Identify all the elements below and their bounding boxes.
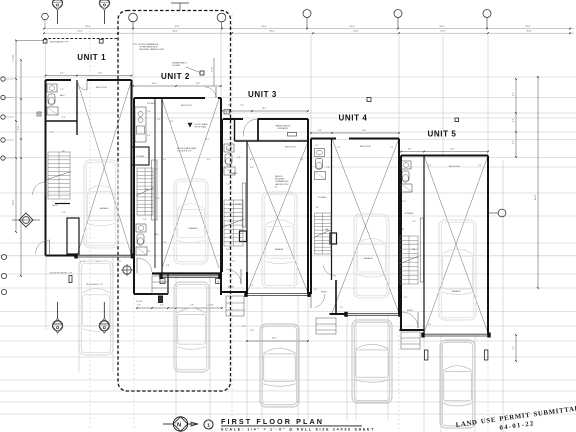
svg-text:11'-2": 11'-2" — [98, 73, 103, 75]
unit 3 stairs — [224, 200, 243, 246]
svg-text:UP 16R: UP 16R — [235, 204, 242, 206]
unit 1 garage door — [77, 254, 132, 256]
property line dashed rounded rectangle — [118, 11, 231, 392]
svg-text:ENTRY: ENTRY — [321, 292, 328, 294]
top dimension line row 2 — [44, 32, 574, 34]
left edge hex bubbles — [1, 77, 5, 81]
svg-text:CONCRETE LANDING, TYP: CONCRETE LANDING, TYP — [49, 272, 73, 275]
svg-text:16'-0": 16'-0" — [353, 31, 359, 33]
svg-text:2'-0": 2'-0" — [300, 159, 304, 161]
svg-text:UNIT 4: UNIT 4 — [339, 114, 368, 123]
svg-text:GARAGE: GARAGE — [364, 257, 374, 260]
unit 3 walls — [223, 118, 243, 120]
svg-text:16'-0": 16'-0" — [440, 31, 446, 33]
unit 1 landing post — [69, 276, 72, 283]
svg-text:TOP OF SLAB: TOP OF SLAB — [194, 125, 207, 128]
unit 2 landing post — [159, 296, 163, 303]
svg-text:3'-4": 3'-4" — [207, 159, 211, 161]
drawing number circle — [204, 420, 213, 429]
svg-text:4'-2": 4'-2" — [428, 165, 432, 167]
svg-text:ENTRANCE: ENTRANCE — [278, 127, 289, 130]
svg-text:16'-0": 16'-0" — [525, 26, 531, 28]
svg-text:STORAGE: STORAGE — [405, 212, 415, 215]
driveway car unit 2 — [174, 282, 209, 372]
svg-text:1: 1 — [207, 423, 210, 428]
svg-text:1'-0": 1'-0" — [62, 212, 66, 214]
svg-text:7'-0": 7'-0" — [226, 184, 230, 186]
svg-text:2'-4 1/2": 2'-4 1/2" — [136, 301, 143, 303]
lot post unit5 — [455, 118, 459, 122]
svg-text:16'-0": 16'-0" — [172, 31, 178, 33]
svg-text:16'-0": 16'-0" — [439, 26, 445, 28]
column post unit2 — [200, 71, 204, 75]
svg-text:4'-0": 4'-0" — [513, 118, 515, 122]
svg-text:GARAGE: GARAGE — [100, 207, 110, 210]
svg-text:7'-4 3/4": 7'-4 3/4" — [13, 54, 15, 62]
unit 4 top dim row — [311, 132, 399, 134]
svg-text:6'-4": 6'-4" — [60, 73, 64, 75]
svg-text:UNIT 5: UNIT 5 — [428, 130, 457, 139]
svg-text:3'-0": 3'-0" — [62, 117, 66, 119]
driveway car unit 3 — [260, 324, 299, 407]
unit 3 water service room — [257, 119, 259, 141]
svg-text:30'-6": 30'-6" — [13, 199, 15, 205]
construction grid horizontal lines — [0, 76, 576, 78]
svg-text:BDR ROOM: BDR ROOM — [181, 105, 192, 107]
unit 3 upper dims — [222, 110, 308, 112]
svg-text:2'-6": 2'-6" — [315, 145, 319, 147]
svg-text:4'-2": 4'-2" — [250, 159, 254, 161]
svg-text:14R UP: 14R UP — [52, 205, 59, 207]
unit 1 top dim row — [46, 75, 132, 77]
survey tree 4 bottom — [99, 321, 109, 331]
svg-text:SCALE: 1/4" = 1'-0" @ FULL SIZ: SCALE: 1/4" = 1'-0" @ FULL SIZE 24X36 SH… — [221, 428, 375, 432]
svg-text:16'-0": 16'-0" — [535, 194, 537, 200]
svg-text:1'-6": 1'-6" — [242, 326, 246, 328]
unit 5 hex bubble — [498, 209, 506, 217]
unit 1 door arc top — [77, 80, 87, 90]
svg-text:3'-0": 3'-0" — [226, 249, 230, 251]
unit 2 entry door arc — [137, 258, 152, 272]
unit 3 counter strip — [242, 183, 245, 227]
survey tree 3 bottom — [52, 321, 62, 331]
svg-text:2'-2": 2'-2" — [228, 105, 232, 107]
unit 5 entry door arc — [402, 312, 418, 328]
svg-text:4'-6": 4'-6" — [190, 305, 194, 307]
svg-text:ENTRY: ENTRY — [407, 310, 414, 312]
svg-text:13'-0": 13'-0" — [272, 338, 277, 340]
unit 3 entry door arc — [226, 269, 241, 284]
svg-text:4'-6": 4'-6" — [160, 305, 164, 307]
unit 3 garage door — [247, 293, 308, 295]
svg-text:2'-2": 2'-2" — [118, 261, 122, 263]
svg-text:4'-2": 4'-2" — [337, 147, 341, 149]
svg-text:FIRST FLOOR PLAN: FIRST FLOOR PLAN — [221, 417, 324, 426]
svg-text:10'-2": 10'-2" — [205, 139, 210, 141]
unit 2 main room X brace — [162, 99, 219, 268]
unit 4 walls — [310, 139, 312, 295]
svg-text:3'-1": 3'-1" — [163, 159, 167, 161]
unit 1 deck outline — [16, 40, 44, 42]
svg-text:1'-8": 1'-8" — [412, 221, 416, 223]
unit 2 entry landing — [152, 276, 168, 294]
grid bubble C — [303, 10, 311, 18]
unit 5 top dim row — [401, 151, 488, 153]
unit 4 stairs — [315, 213, 332, 254]
grid bubble D — [394, 10, 402, 18]
svg-text:2'-6": 2'-6" — [402, 201, 406, 203]
unit 5 landing posts — [425, 350, 428, 360]
svg-text:14'-6": 14'-6" — [151, 83, 156, 85]
unit 3 garage X — [247, 142, 308, 293]
unit 2 storage — [132, 147, 150, 165]
unit 1 bath fixtures — [47, 84, 57, 92]
left dimension line inner — [20, 60, 22, 276]
unit 4 interior wall — [331, 139, 333, 281]
svg-text:6'-1": 6'-1" — [340, 307, 344, 309]
survey tree 2 top — [99, 0, 109, 8]
unit 1 garage car — [84, 160, 118, 248]
top dimension line row 1 — [44, 28, 574, 30]
unit 3 bath fixtures — [224, 144, 234, 152]
grid bubble B — [217, 13, 226, 22]
svg-text:ENTRY: ENTRY — [228, 287, 235, 289]
svg-text:9'-6": 9'-6" — [196, 83, 200, 85]
unit 5 stairs — [400, 236, 418, 284]
svg-text:GARAGE: GARAGE — [275, 248, 285, 251]
svg-text:4'-0": 4'-0" — [513, 92, 515, 96]
svg-text:G: G — [162, 282, 164, 284]
svg-text:8'-0": 8'-0" — [318, 130, 322, 132]
driveway car unit 5 — [440, 340, 475, 428]
left survey diamond — [19, 213, 33, 227]
svg-text:1/2" DROPS, TYP: 1/2" DROPS, TYP — [177, 150, 192, 152]
unit 4 bath fixtures — [315, 149, 325, 157]
svg-text:2'-6": 2'-6" — [226, 149, 230, 151]
unit 3 garage car — [262, 192, 297, 288]
svg-text:N: N — [177, 422, 181, 428]
unit 5 interior wall — [423, 156, 425, 334]
unit 5 entry landing — [401, 332, 420, 349]
unit 3 closet slab — [240, 231, 247, 242]
unit 4 landing — [316, 318, 336, 334]
unit 2 garage car — [174, 179, 208, 264]
svg-text:1'-6": 1'-6" — [513, 346, 515, 350]
svg-text:G: G — [217, 282, 219, 284]
unit 3 landing — [226, 296, 244, 316]
svg-text:1'-4": 1'-4" — [147, 135, 151, 137]
grid bubble A — [129, 13, 138, 22]
construction grid vertical lines — [45, 37, 47, 80]
svg-text:DECAL ANGLE, TYP: DECAL ANGLE, TYP — [86, 283, 104, 286]
svg-text:8'-0": 8'-0" — [408, 149, 412, 151]
unit 2 upper dims — [133, 85, 221, 87]
svg-text:7'-10 1/2": 7'-10 1/2" — [206, 305, 214, 307]
land use permit stamp — [455, 405, 576, 432]
svg-text:2'-0": 2'-0" — [478, 165, 482, 167]
svg-text:5'-0": 5'-0" — [147, 251, 151, 253]
unit 1 stairs — [48, 152, 70, 199]
svg-text:3'-0": 3'-0" — [314, 289, 318, 291]
svg-text:COLUMN: COLUMN — [172, 65, 180, 67]
svg-text:WATER SERVICE: WATER SERVICE — [276, 125, 291, 128]
svg-text:16'-0": 16'-0" — [85, 26, 91, 28]
svg-text:24: 24 — [275, 186, 277, 188]
svg-text:GARAGE: GARAGE — [189, 227, 199, 230]
svg-text:BDR ROOM: BDR ROOM — [285, 147, 296, 149]
svg-text:STORAGE: STORAGE — [136, 155, 146, 158]
svg-text:13'-4": 13'-4" — [362, 130, 367, 132]
svg-text:BDR ROOM: BDR ROOM — [96, 87, 107, 89]
unit 1 side door arc — [33, 182, 46, 195]
svg-text:GAR PER TITLE: GAR PER TITLE — [275, 183, 289, 186]
svg-text:KITCHEN: KITCHEN — [147, 103, 155, 105]
svg-text:2'-6": 2'-6" — [147, 111, 151, 113]
right dimension line B — [537, 77, 539, 288]
unit 4 entry door arc — [315, 294, 325, 308]
svg-text:2'-0": 2'-0" — [390, 147, 394, 149]
svg-text:11'-6": 11'-6" — [212, 67, 214, 72]
unit 2 garage front wall — [152, 272, 221, 274]
unit 2 bath fixtures — [136, 224, 146, 232]
unit 1 walls — [45, 80, 47, 256]
unit 2 door arc top exterior — [205, 87, 216, 98]
north arrow — [173, 417, 187, 431]
right dimension lower — [515, 335, 517, 361]
title underline — [221, 425, 362, 427]
unit 4 garage door — [347, 313, 399, 315]
svg-text:7'-2": 7'-2" — [240, 105, 244, 107]
top grid bubble stem at x180 — [179, 3, 181, 11]
svg-text:UNIT 3: UNIT 3 — [248, 90, 277, 99]
svg-text:STORAGE: STORAGE — [318, 196, 328, 199]
svg-text:3'-6": 3'-6" — [156, 198, 160, 200]
unit 3 top door arc — [244, 119, 257, 136]
unit 5 garage car — [439, 220, 476, 320]
svg-text:1'-6": 1'-6" — [163, 242, 167, 244]
svg-text:DECKS ABOVE, TYP: DECKS ABOVE, TYP — [50, 41, 69, 44]
unit 2 walls — [133, 98, 135, 294]
svg-text:1'-6": 1'-6" — [60, 89, 64, 91]
unit 2 interior walls — [154, 98, 156, 268]
svg-text:16'-0": 16'-0" — [269, 31, 275, 33]
svg-text:1'-8": 1'-8" — [237, 157, 241, 159]
svg-text:BDR ROOM: BDR ROOM — [449, 166, 460, 168]
driveway car unit 1 — [79, 261, 113, 355]
unit 3 keynote box — [224, 110, 230, 115]
driveway car unit 4 — [352, 320, 392, 403]
svg-text:5'-1": 5'-1" — [50, 132, 54, 134]
unit 2 garage opener boxes — [160, 279, 165, 284]
survey tree 1 top — [52, 0, 62, 8]
svg-text:1 TYP NOTE SEPARATION: 1 TYP NOTE SEPARATION — [136, 43, 159, 46]
svg-text:5'-8": 5'-8" — [250, 330, 254, 332]
unit 2 grade marker — [188, 123, 192, 127]
unit 1 garage X brace — [77, 80, 132, 256]
svg-text:BDR ROOM: BDR ROOM — [360, 146, 371, 148]
left small marker box — [37, 112, 41, 116]
svg-text:15'-0": 15'-0" — [77, 31, 83, 33]
left dimension line outer — [15, 41, 17, 233]
svg-text:9'-0": 9'-0" — [157, 119, 161, 121]
unit 5 garage door — [424, 333, 488, 335]
left lower bubbles — [1, 254, 6, 259]
svg-text:16'-0": 16'-0" — [349, 26, 355, 28]
unit 4 closet slab — [330, 233, 337, 244]
unit 5 counter strip — [420, 218, 423, 282]
svg-text:CLEARANCE AT: CLEARANCE AT — [275, 180, 289, 183]
svg-text:16'-0": 16'-0" — [261, 26, 267, 28]
svg-text:15'-8": 15'-8" — [450, 149, 455, 151]
unit 4 garage car — [354, 214, 389, 298]
svg-text:16'-0": 16'-0" — [526, 31, 532, 33]
svg-text:3'-0": 3'-0" — [404, 297, 408, 299]
svg-text:9'-6": 9'-6" — [250, 167, 254, 169]
unit 3 interior wall — [246, 141, 248, 294]
deck post a — [43, 39, 47, 43]
deck post b — [99, 39, 103, 43]
unit 1 interior wall — [46, 120, 78, 122]
svg-text:UNIT 2: UNIT 2 — [161, 72, 190, 81]
unit 2 survey circle — [123, 266, 131, 274]
svg-text:4'-0": 4'-0" — [170, 121, 174, 123]
svg-text:10'-1": 10'-1" — [262, 108, 267, 110]
svg-text:1'-6": 1'-6" — [137, 305, 141, 307]
svg-text:STORAGE: STORAGE — [229, 172, 239, 175]
svg-text:ZERO/R ALL THREE FLOORS: ZERO/R ALL THREE FLOORS — [139, 48, 165, 51]
unit 2 stairs — [137, 168, 153, 215]
svg-text:2'-8": 2'-8" — [143, 219, 147, 221]
unit 5 garage X — [424, 156, 488, 334]
svg-text:9'-0": 9'-0" — [18, 126, 20, 130]
unit 2 driveway dims — [137, 307, 222, 309]
hex bubble top left — [41, 14, 48, 20]
svg-text:6'-8": 6'-8" — [166, 265, 170, 267]
unit 1 entry door arc — [36, 240, 50, 254]
svg-text:4'-0": 4'-0" — [513, 140, 515, 144]
svg-text:6'-1": 6'-1" — [428, 324, 432, 326]
svg-text:1'-6": 1'-6" — [232, 261, 236, 263]
unit 2 kitchen fixtures — [135, 107, 146, 142]
svg-text:16'-0": 16'-0" — [174, 26, 180, 28]
svg-text:1'-8": 1'-8" — [326, 167, 330, 169]
grid bubble E — [483, 10, 491, 18]
right dimension line A — [515, 79, 517, 157]
unit 5 walls — [400, 156, 402, 331]
unit 5 bath fixtures — [401, 161, 411, 169]
svg-text:GARAGE: GARAGE — [452, 290, 462, 293]
svg-text:6'-1": 6'-1" — [250, 285, 254, 287]
unit 2 counter strip — [152, 160, 158, 220]
lot post unit4 — [367, 98, 371, 102]
unit 4 garage X — [332, 139, 399, 314]
unit 4 garage door arc — [323, 265, 336, 276]
svg-text:UNIT 1: UNIT 1 — [77, 53, 106, 62]
unit 3 driveway dims — [247, 340, 308, 342]
unit 1 closet — [67, 218, 79, 254]
